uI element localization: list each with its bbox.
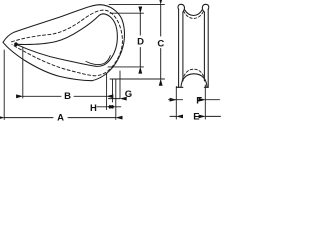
svg-text:E: E	[193, 112, 199, 123]
thimble outer outline (oblique view)	[3, 5, 124, 81]
far groove wall seen through eye	[86, 56, 110, 65]
cross-section left wall outer line	[178, 9, 180, 87]
cross-section bottom arch dashed	[182, 69, 205, 80]
junction dot at thimble point	[14, 42, 18, 46]
dimension E right arrow	[205, 115, 220, 117]
extension line D bottom	[108, 66, 144, 68]
extension line B right / H left	[106, 74, 108, 110]
dimension F left arrow	[176, 99, 182, 101]
extension line D top	[110, 12, 144, 14]
cross-section right lobe	[202, 4, 208, 12]
extension line G right	[119, 71, 121, 98]
dimension E left arrow	[170, 115, 176, 117]
dimension A line with arrows	[4, 117, 53, 119]
extension line E/F left	[175, 87, 177, 120]
cross-section groove top solid curve	[184, 9, 202, 15]
thimble eye opening (inner solid outline)	[16, 14, 117, 67]
cross-section left lobe	[178, 4, 184, 12]
thimble groove hidden line (dashed loop)	[12, 10, 123, 76]
extension line for B left	[22, 47, 24, 98]
cross-section right wall inner line	[203, 12, 205, 81]
cross-section left wall bottom edge	[177, 86, 183, 88]
extension line C bottom	[110, 78, 165, 80]
extension line G left	[112, 79, 114, 102]
cross-section left wall inner line	[182, 12, 184, 81]
svg-text:F: F	[196, 95, 202, 106]
svg-text:C: C	[157, 38, 164, 49]
svg-text:H: H	[90, 103, 97, 114]
dimension B line with arrows	[23, 95, 61, 97]
cross-section right wall bottom edge	[204, 86, 208, 88]
svg-text:B: B	[64, 91, 71, 102]
dimension G arrow	[109, 98, 121, 100]
extension line A right / H right	[115, 79, 117, 120]
dimension H left arrow	[97, 106, 107, 108]
cross-section groove top dashed curve	[184, 11, 204, 18]
extension line E/F right	[204, 85, 206, 119]
svg-text:G: G	[125, 89, 132, 100]
extension line C top	[109, 3, 165, 5]
cross-section bottom arch solid	[181, 74, 207, 87]
dimension C vertical line with arrows	[160, 4, 162, 36]
svg-text:A: A	[57, 113, 64, 124]
dimension H right arrow	[116, 106, 121, 108]
extension line for A left	[3, 50, 5, 120]
dimension D vertical line with arrows	[139, 13, 141, 35]
cross-section right wall outer line	[207, 9, 209, 87]
dimension F right arrow	[205, 99, 219, 101]
svg-text:D: D	[137, 37, 144, 48]
